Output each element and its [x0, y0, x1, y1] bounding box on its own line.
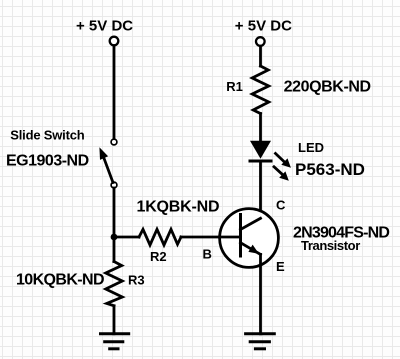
LED D1 anode triangle — [250, 141, 271, 159]
transistor Q1 emitter lead — [241, 243, 261, 255]
svg-text:Transistor: Transistor — [301, 238, 360, 253]
svg-text:C: C — [276, 198, 286, 213]
transistor Q1 body circle — [220, 209, 279, 268]
transistor Q1 base bar — [239, 215, 242, 257]
svg-text:10KQBK-ND: 10KQBK-ND — [16, 272, 104, 289]
svg-text:P563-ND: P563-ND — [295, 160, 365, 179]
wire: LED to collector — [259, 163, 262, 219]
svg-text:Slide Switch: Slide Switch — [10, 128, 84, 143]
svg-text:E: E — [276, 259, 285, 274]
transistor Q1 base lead — [220, 236, 241, 239]
transistor Q1 collector lead — [241, 218, 261, 229]
resistor R3 — [106, 262, 123, 306]
ground (right) — [246, 332, 275, 335]
svg-text:220QBK-ND: 220QBK-ND — [284, 79, 371, 96]
svg-text:LED: LED — [298, 140, 324, 155]
LED D1 cathode bar — [250, 160, 271, 163]
+5V terminal (left) — [110, 37, 119, 46]
wire: right terminal to R1 — [259, 46, 262, 66]
+5V terminal (right) — [256, 37, 265, 46]
node junction dot — [111, 234, 118, 241]
wire: left terminal to switch — [113, 46, 116, 139]
slide switch S1 bottom contact — [111, 182, 117, 188]
LED light arrow 1 — [276, 154, 285, 163]
wire: node to R2 — [114, 236, 139, 239]
wire: R3 to ground — [113, 306, 116, 334]
slide switch S1 lever arrow — [104, 157, 114, 183]
resistor R1 — [252, 66, 269, 114]
resistor R2 — [139, 229, 181, 245]
LED light arrow 2 — [274, 167, 283, 175]
svg-text:EG1903-ND: EG1903-ND — [6, 153, 89, 170]
slide switch S1 top contact — [111, 139, 117, 145]
wire: R1 to LED — [259, 114, 262, 142]
svg-text:1KQBK-ND: 1KQBK-ND — [137, 198, 220, 215]
svg-text:+ 5V DC: + 5V DC — [76, 18, 133, 35]
wire: node to R3 — [113, 237, 116, 262]
wire: R2 to base — [181, 236, 241, 239]
transistor Q1 emitter arrowhead — [248, 245, 259, 254]
svg-text:R1: R1 — [226, 79, 243, 94]
wire: switch to node — [113, 188, 116, 237]
svg-text:+ 5V DC: + 5V DC — [235, 18, 292, 35]
svg-text:R3: R3 — [128, 273, 145, 288]
svg-text:R2: R2 — [150, 249, 167, 264]
wire: emitter to ground — [259, 254, 262, 333]
svg-text:B: B — [203, 247, 212, 262]
ground (left) — [101, 332, 129, 335]
